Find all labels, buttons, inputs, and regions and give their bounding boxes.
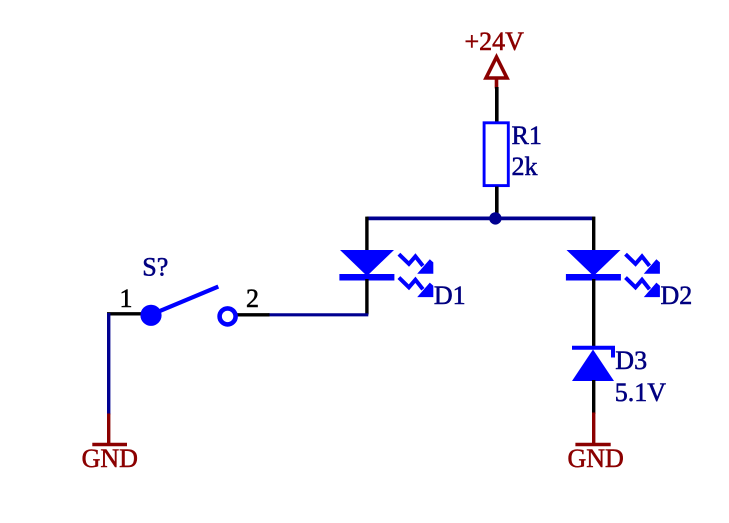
- wire: pin1 corner down to GND: [107, 313, 110, 415]
- power port +24V arrow symbol: [486, 57, 507, 89]
- wire: R1 bottom pin to junction: [495, 187, 499, 216]
- LED D2 triangle: [567, 250, 621, 276]
- svg-text:D3: D3: [615, 346, 647, 375]
- LED D2 light arrow 2: [626, 278, 660, 298]
- LED D2 light arrow 1: [626, 254, 660, 274]
- ground GND (left) stem: [107, 414, 110, 445]
- zener D3 triangle: [572, 350, 614, 382]
- wire: switch contact 2 to D1 branch: [269, 313, 369, 316]
- wire: D1 cathode pin down to switch row: [365, 279, 368, 315]
- svg-text:D1: D1: [434, 281, 466, 310]
- svg-text:GND: GND: [82, 444, 138, 473]
- ground GND (left) bar: [92, 443, 127, 446]
- wire: main horizontal bus: [367, 216, 595, 220]
- switch pole contact (filled): [140, 305, 161, 326]
- LED D1 light arrow 2: [399, 278, 433, 298]
- switch lever: [159, 287, 219, 312]
- wire: bus corner down to D2 anode pin: [592, 217, 595, 251]
- zener D3 cathode bar with bend: [572, 348, 613, 358]
- switch throw contact (open): [220, 308, 236, 324]
- LED D1 cathode bar: [339, 274, 394, 281]
- wire: bus corner down to D1 anode pin: [365, 217, 368, 251]
- switch pin 2 stub: [237, 313, 270, 316]
- junction node: [489, 212, 501, 224]
- resistor R1 body: [484, 123, 508, 186]
- svg-text:D2: D2: [661, 281, 693, 310]
- svg-text:1: 1: [120, 284, 133, 313]
- LED D1 triangle: [340, 250, 394, 276]
- ground GND (right) bar: [575, 443, 610, 446]
- svg-text:+24V: +24V: [465, 27, 525, 56]
- svg-text:GND: GND: [568, 444, 624, 473]
- LED D2 cathode bar: [566, 274, 621, 281]
- wire: D3 anode pin down to GND: [592, 380, 595, 414]
- svg-text:5.1V: 5.1V: [615, 378, 667, 407]
- ground GND (right) stem: [592, 413, 595, 445]
- svg-text:2k: 2k: [512, 152, 538, 181]
- svg-text:R1: R1: [512, 121, 542, 150]
- LED D1 light arrow 1: [399, 254, 433, 274]
- svg-text:2: 2: [246, 284, 259, 313]
- switch pin 1 stub: [107, 312, 142, 315]
- svg-text:S?: S?: [142, 253, 168, 282]
- wire: D2 cathode pin down to D3 cathode: [592, 279, 595, 348]
- wire: power to R1 top pin: [495, 87, 499, 122]
